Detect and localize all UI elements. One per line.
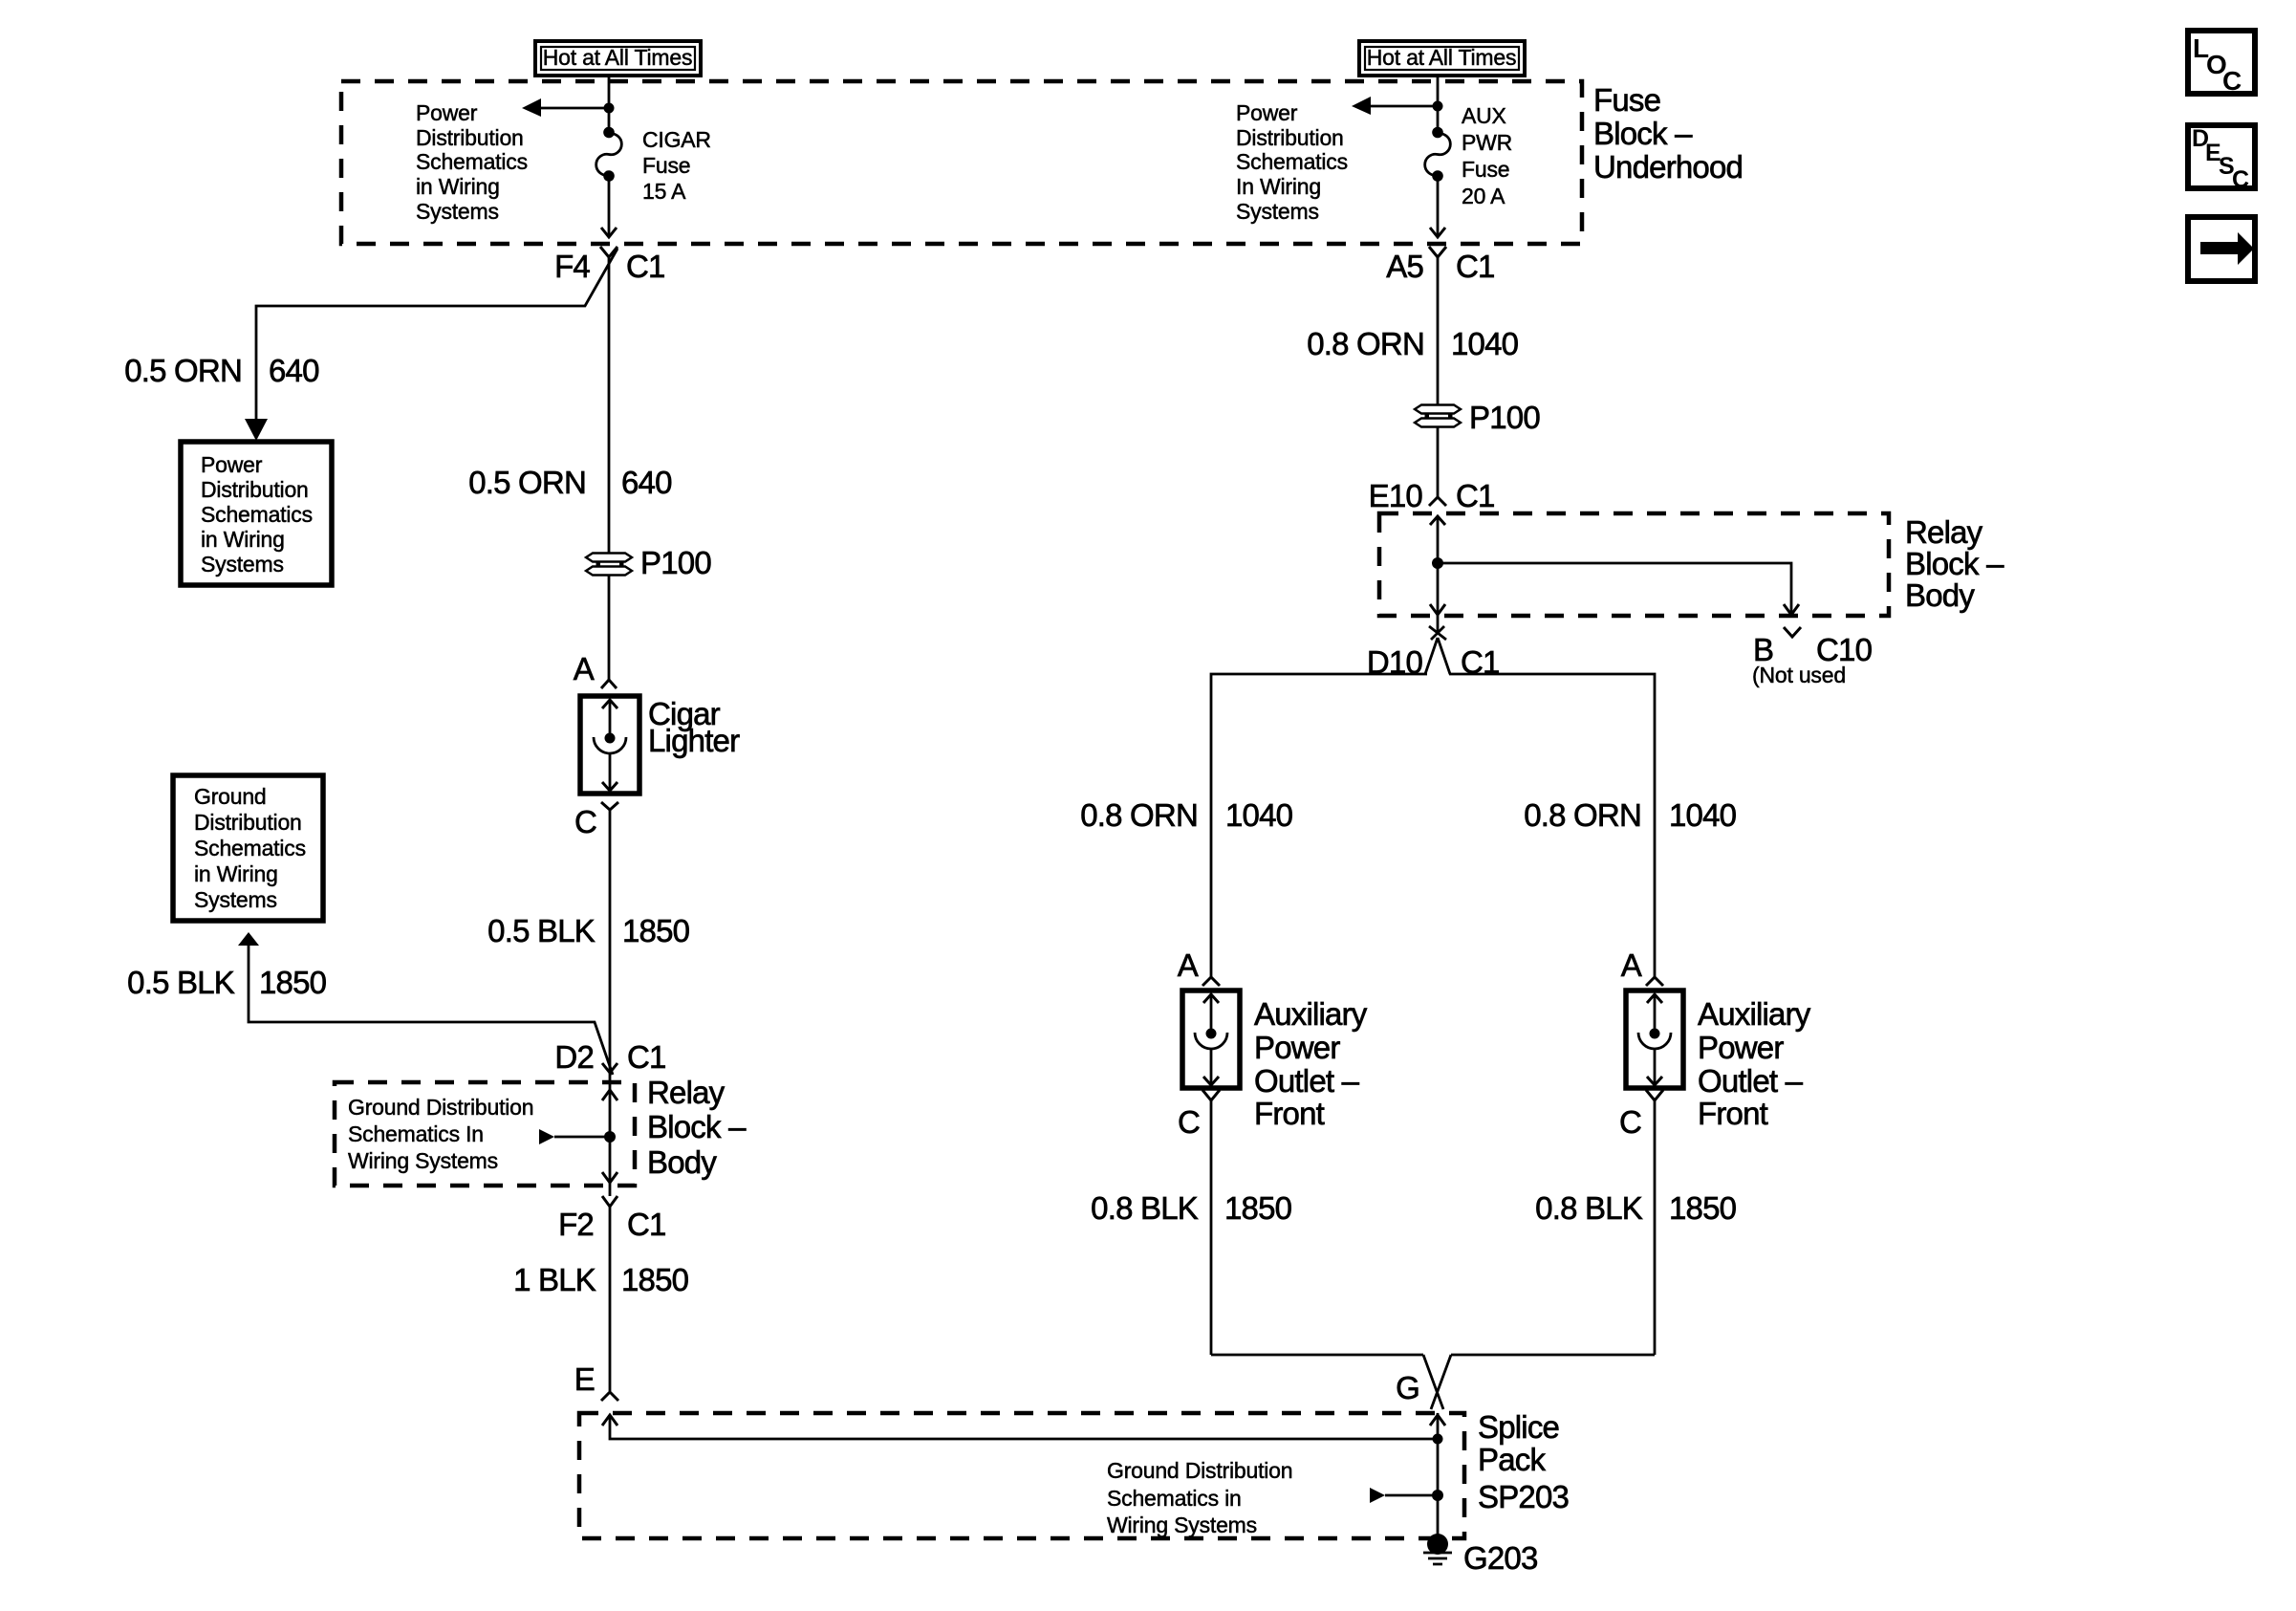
svg-text:Distribution: Distribution xyxy=(1236,125,1344,150)
svg-text:Underhood: Underhood xyxy=(1593,149,1743,185)
svg-text:A: A xyxy=(1178,947,1199,983)
svg-text:1850: 1850 xyxy=(1669,1190,1737,1226)
svg-text:20 A: 20 A xyxy=(1462,184,1505,208)
svg-text:Front: Front xyxy=(1254,1096,1325,1131)
svg-text:1040: 1040 xyxy=(1451,326,1519,361)
svg-text:Block –: Block – xyxy=(1905,546,2004,581)
svg-text:C: C xyxy=(2222,66,2242,96)
svg-text:F4: F4 xyxy=(554,249,590,284)
svg-text:Distribution: Distribution xyxy=(201,477,309,502)
svg-text:Power: Power xyxy=(1254,1030,1340,1065)
svg-text:C1: C1 xyxy=(626,249,665,284)
svg-text:1850: 1850 xyxy=(622,913,690,948)
svg-text:Relay: Relay xyxy=(647,1075,726,1110)
svg-text:P100: P100 xyxy=(640,545,711,580)
svg-text:Hot at All Times: Hot at All Times xyxy=(543,45,693,70)
svg-text:C1: C1 xyxy=(1456,478,1495,513)
svg-text:Schematics: Schematics xyxy=(416,149,528,174)
svg-text:C1: C1 xyxy=(627,1039,666,1075)
svg-text:Ground: Ground xyxy=(194,784,267,809)
svg-text:C1: C1 xyxy=(627,1207,666,1242)
svg-text:Auxiliary: Auxiliary xyxy=(1254,996,1368,1032)
svg-text:C: C xyxy=(2232,166,2249,193)
svg-text:Block –: Block – xyxy=(647,1109,747,1144)
svg-text:0.5 ORN: 0.5 ORN xyxy=(468,465,586,500)
svg-text:C: C xyxy=(1619,1104,1641,1140)
svg-text:1 BLK: 1 BLK xyxy=(513,1262,596,1297)
svg-text:Schematics: Schematics xyxy=(1236,149,1348,174)
svg-text:F2: F2 xyxy=(558,1207,594,1242)
svg-text:Block –: Block – xyxy=(1593,116,1693,151)
svg-text:Power: Power xyxy=(1236,100,1298,125)
svg-text:Front: Front xyxy=(1698,1096,1768,1131)
svg-text:Auxiliary: Auxiliary xyxy=(1698,996,1811,1032)
svg-text:Outlet –: Outlet – xyxy=(1698,1063,1804,1099)
svg-text:0.8 ORN: 0.8 ORN xyxy=(1524,797,1641,833)
svg-text:0.8 BLK: 0.8 BLK xyxy=(1091,1190,1199,1226)
svg-text:1850: 1850 xyxy=(1224,1190,1292,1226)
svg-text:(Not used: (Not used xyxy=(1752,663,1846,687)
svg-text:C1: C1 xyxy=(1456,249,1495,284)
svg-text:Outlet –: Outlet – xyxy=(1254,1063,1360,1099)
svg-text:Body: Body xyxy=(647,1144,717,1180)
svg-text:Pack: Pack xyxy=(1478,1442,1546,1477)
svg-text:In Wiring: In Wiring xyxy=(1236,174,1321,199)
svg-text:Body: Body xyxy=(1905,577,1975,613)
svg-text:Schematics: Schematics xyxy=(201,502,313,527)
svg-text:1040: 1040 xyxy=(1225,797,1293,833)
svg-text:in Wiring: in Wiring xyxy=(416,174,500,199)
svg-text:Schematics in: Schematics in xyxy=(1107,1486,1242,1511)
svg-text:15 A: 15 A xyxy=(642,179,686,204)
svg-text:SP203: SP203 xyxy=(1478,1479,1569,1514)
svg-text:Systems: Systems xyxy=(1236,199,1319,224)
svg-text:C: C xyxy=(574,804,596,839)
svg-text:G203: G203 xyxy=(1463,1540,1538,1576)
svg-text:1850: 1850 xyxy=(259,965,327,1000)
svg-text:0.8 ORN: 0.8 ORN xyxy=(1080,797,1198,833)
svg-text:E: E xyxy=(574,1361,595,1397)
svg-text:A: A xyxy=(574,651,595,686)
svg-text:Wiring Systems: Wiring Systems xyxy=(1107,1513,1257,1537)
svg-text:Ground Distribution: Ground Distribution xyxy=(1107,1458,1292,1483)
svg-text:1040: 1040 xyxy=(1669,797,1737,833)
svg-text:Relay: Relay xyxy=(1905,514,1983,550)
svg-text:C: C xyxy=(1178,1104,1200,1140)
svg-text:A: A xyxy=(1621,947,1642,983)
svg-text:CIGAR: CIGAR xyxy=(642,127,711,152)
svg-text:Ground Distribution: Ground Distribution xyxy=(348,1095,533,1120)
svg-text:D2: D2 xyxy=(554,1039,594,1075)
svg-text:640: 640 xyxy=(621,465,672,500)
svg-text:0.5 BLK: 0.5 BLK xyxy=(487,913,596,948)
svg-text:G: G xyxy=(1396,1370,1419,1405)
svg-text:Fuse: Fuse xyxy=(1462,157,1509,182)
svg-text:in Wiring: in Wiring xyxy=(194,861,278,886)
svg-text:Systems: Systems xyxy=(194,887,277,912)
svg-text:0.5 ORN: 0.5 ORN xyxy=(124,353,242,388)
svg-text:0.8 ORN: 0.8 ORN xyxy=(1307,326,1424,361)
svg-text:Systems: Systems xyxy=(201,552,284,577)
svg-text:A5: A5 xyxy=(1386,249,1423,284)
svg-text:Distribution: Distribution xyxy=(194,810,302,835)
svg-text:Hot at All Times: Hot at All Times xyxy=(1367,45,1517,70)
svg-text:0.5 BLK: 0.5 BLK xyxy=(127,965,235,1000)
svg-text:Distribution: Distribution xyxy=(416,125,524,150)
svg-text:Fuse: Fuse xyxy=(1593,82,1660,118)
svg-text:AUX: AUX xyxy=(1462,103,1506,128)
svg-text:PWR: PWR xyxy=(1462,130,1512,155)
svg-text:1850: 1850 xyxy=(621,1262,689,1297)
svg-text:in Wiring: in Wiring xyxy=(201,527,285,552)
svg-text:Systems: Systems xyxy=(416,199,499,224)
svg-text:Power: Power xyxy=(416,100,478,125)
svg-text:Fuse: Fuse xyxy=(642,153,690,178)
svg-text:Wiring Systems: Wiring Systems xyxy=(348,1148,498,1173)
svg-text:640: 640 xyxy=(269,353,319,388)
svg-text:Schematics In: Schematics In xyxy=(348,1121,484,1146)
svg-text:Lighter: Lighter xyxy=(648,723,740,758)
svg-text:Power: Power xyxy=(1698,1030,1784,1065)
svg-text:P100: P100 xyxy=(1469,400,1540,435)
svg-text:Schematics: Schematics xyxy=(194,836,306,860)
svg-text:E10: E10 xyxy=(1369,478,1423,513)
svg-text:0.8 BLK: 0.8 BLK xyxy=(1535,1190,1643,1226)
svg-text:Splice: Splice xyxy=(1478,1409,1559,1445)
svg-text:Power: Power xyxy=(201,452,263,477)
